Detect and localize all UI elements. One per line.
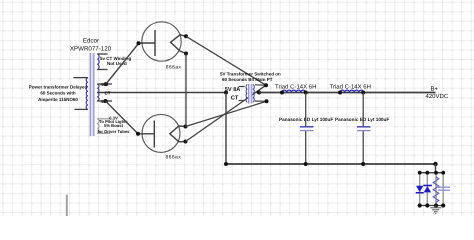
wire T2 sec CT stub [255, 92, 259, 94]
tube V2 866ax envelope [142, 114, 180, 152]
transformer T2 primary leads [239, 87, 245, 101]
svg-text:5V 8A: 5V 8A [225, 87, 241, 93]
tube V1 866ax envelope [142, 22, 181, 61]
svg-text:60 Seconds B4 Main PT: 60 Seconds B4 Main PT [222, 77, 273, 82]
wire entry to output network [435, 164, 437, 173]
capacitor C1 [300, 93, 314, 165]
node V1 fil bottom [184, 52, 188, 56]
svg-text:B+: B+ [431, 85, 439, 92]
capacitor C2 [357, 93, 371, 165]
transformer T1 core [90, 53, 94, 136]
node T2 sec CT [257, 91, 261, 95]
svg-text:XPWR077-120: XPWR077-120 [70, 45, 112, 52]
note: 5V winding not used [100, 56, 131, 66]
node V2 fil bottom [184, 140, 188, 144]
wire output top bus [419, 172, 444, 174]
node C1 bottom [304, 162, 308, 166]
inductor L1 [280, 90, 308, 94]
diode D2 (up) [423, 185, 432, 193]
tube V1 plate [139, 30, 156, 56]
svg-text:CT: CT [105, 90, 111, 95]
svg-text:CT: CT [231, 94, 239, 101]
note: 6.3V to driver tubes [97, 115, 130, 134]
transformer T1 5V winding (not used) [97, 54, 107, 70]
note: 5V transformer switched [220, 72, 281, 82]
wire CT lead (to vertical) [97, 92, 226, 94]
svg-text:60 Seconds with: 60 Seconds with [40, 91, 76, 96]
transformer T1 6.3V winding (gray) [97, 119, 110, 134]
wire B+ rail [259, 92, 436, 94]
tube V2 filament [170, 126, 186, 142]
inductor L2 [338, 90, 365, 94]
node bus bottom 2 [425, 203, 429, 207]
node bus top 4 [441, 171, 445, 175]
node V1 plate [137, 41, 141, 45]
svg-text:Amperite 115NO60: Amperite 115NO60 [38, 97, 78, 102]
node rail end [433, 162, 437, 166]
svg-text:Panasonic ED Lyt 100uF: Panasonic ED Lyt 100uF [335, 117, 389, 122]
wire branch 4 [442, 173, 444, 206]
node HV CT junction [224, 91, 228, 95]
transformer T2 secondary coil [253, 85, 254, 102]
wire V2 fil bottom to T2 sec top [186, 85, 267, 141]
svg-text:Triad C-14X 6H: Triad C-14X 6H [330, 83, 371, 90]
svg-text:420VDC: 420VDC [426, 93, 449, 100]
svg-text:5V Transformer Switched on: 5V Transformer Switched on [220, 72, 281, 77]
node bus bottom 1 [418, 203, 422, 207]
wire V1 fil to T2 sec top [186, 36, 266, 85]
node bus top 3 [434, 171, 438, 175]
wire HV top to tube V1 plate [106, 44, 139, 85]
svg-text:Triad C-14X 6H: Triad C-14X 6H [275, 83, 316, 90]
node V1 fil top [184, 34, 188, 38]
resistor R1 [433, 177, 439, 203]
wire output bottom bus [419, 205, 444, 207]
wire 460 bottom lead [97, 100, 112, 102]
svg-text:866ax: 866ax [166, 65, 182, 71]
wire bottom return rail [226, 163, 436, 165]
wire V2 fil top to T2 sec bottom [186, 101, 267, 126]
wire filament vertical V1-V2 [185, 54, 187, 127]
svg-text:866ax: 866ax [166, 155, 182, 161]
wire T2 sec top stub [255, 84, 266, 86]
node 460 top [104, 82, 108, 86]
node V2 plate [136, 132, 140, 136]
svg-text:Power transformer Delayed: Power transformer Delayed [29, 84, 88, 89]
wire HV CT vertical down [225, 93, 227, 165]
wire branch 1 [419, 173, 421, 206]
svg-text:Edcor: Edcor [83, 38, 99, 45]
ground [430, 206, 441, 214]
node T2 sec top [264, 83, 268, 87]
wire HV bottom to tube V2 plate [106, 101, 139, 134]
transformer T1 label Edcor [70, 38, 112, 53]
diode D1 (down) [416, 186, 424, 194]
transformer T1 primary winding [74, 78, 89, 110]
node T2 sec bottom [265, 99, 269, 103]
tube V1 filament [171, 35, 187, 54]
node 460 bottom [104, 99, 108, 103]
node V2 fil top [184, 125, 188, 129]
capacitor C3 [437, 187, 450, 190]
tube V2 plate [138, 121, 154, 148]
node rail corner [224, 162, 228, 166]
node C2 bottom [361, 162, 365, 166]
label 460 top [101, 82, 111, 104]
wire branch 3 [435, 173, 437, 206]
svg-text:5% Boost: 5% Boost [104, 123, 124, 128]
transformer T1 HV secondary winding [97, 82, 226, 103]
wire branch 2 [426, 173, 428, 206]
svg-text:for Driver Tubes: for Driver Tubes [97, 129, 130, 134]
wire stray gray (off-page) [66, 195, 68, 217]
note: power transformer delay [29, 84, 88, 101]
node bus top 1 [418, 171, 422, 175]
transformer T2 primary coil [246, 85, 247, 102]
node bus bottom 4 [441, 203, 445, 207]
wire T2 sec bottom stub [255, 100, 267, 102]
node bus top 2 [425, 171, 429, 175]
transformer T2 core [248, 84, 252, 104]
node bus bottom 3 [434, 203, 438, 207]
wire 460 top lead [97, 83, 112, 85]
